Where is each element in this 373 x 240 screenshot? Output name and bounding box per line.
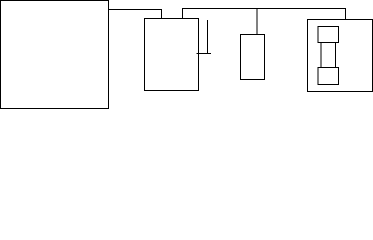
ground stub vertical beside U2 — [207, 20, 209, 54]
component X1 upper body (top rectangle of crystal) — [318, 27, 339, 43]
component X1 lower body (bottom rectangle of crystal) — [318, 68, 339, 85]
wire net B vertical drop into U3 top — [256, 9, 258, 35]
wire net A vertical drop into U2 top — [161, 10, 163, 19]
wire net B vertical stub from U2 top up to bus — [182, 8, 184, 19]
block U4 (right module enclosure) — [308, 20, 373, 92]
block U2 (second module) — [145, 19, 199, 91]
wire net B horizontal bus — [183, 8, 346, 10]
component X1 neck left side — [320, 43, 322, 68]
ground bar — [196, 53, 210, 55]
block U1 (large left module) — [1, 1, 109, 109]
wire net B vertical drop onto U4 top edge — [345, 8, 347, 20]
component X1 neck right side — [334, 43, 336, 68]
wire net A horizontal from U1 to node at x161 — [108, 9, 162, 11]
block U3 (small module) — [241, 35, 265, 80]
